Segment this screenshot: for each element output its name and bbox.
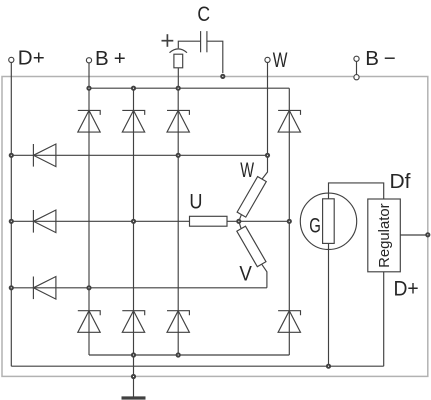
node negative bus phase3 [177, 353, 180, 356]
rotor G circle [300, 193, 356, 249]
wire negative bus [89, 354, 289, 356]
wire D+ vertical [10, 63, 12, 367]
wire capacitor to B+ bus [177, 68, 179, 88]
diode D8 star-point bottom [278, 311, 300, 333]
terminal regulator case [426, 233, 429, 236]
wire V winding top lead [239, 221, 241, 228]
diode D3 top row [167, 110, 189, 132]
wire capacitor to case [207, 41, 223, 73]
diode D11 exciter row 3 [33, 277, 56, 300]
node row1 W [266, 154, 269, 157]
diode D7 bottom row [167, 311, 189, 333]
node rotor ground [327, 365, 330, 368]
wire V winding bottom lead [262, 264, 267, 288]
diode D1 top row [78, 110, 100, 132]
stator winding V [237, 226, 266, 267]
wire rotor bottom lead [328, 243, 330, 366]
capacitor C body rectangle [174, 54, 183, 68]
node D+ row3 [10, 286, 13, 289]
wire ground lead [133, 355, 135, 397]
stator winding W [237, 177, 266, 218]
wire capacitor top plate lead [178, 41, 200, 48]
capacitor plus sign [162, 34, 174, 47]
node negative bus phase2 [132, 353, 135, 356]
svg-text:C: C [197, 3, 210, 26]
node bus phase2 [132, 87, 135, 90]
wire regulator right lead [400, 234, 428, 236]
diode D5 bottom row [78, 311, 100, 333]
wire row 3 [11, 287, 267, 289]
node row1 phase3 [177, 154, 180, 157]
terminal D+ [9, 57, 14, 62]
svg-text:W: W [273, 48, 288, 72]
svg-text:Df: Df [390, 170, 411, 193]
node row2 star column [288, 220, 291, 223]
terminal W [265, 57, 270, 62]
svg-text:D+: D+ [394, 277, 419, 301]
wire W winding bottom lead [239, 215, 242, 222]
node D+ row1 [10, 154, 13, 157]
wire B+ terminal stem [88, 63, 90, 88]
wire row 1 [11, 154, 267, 156]
diode D6 bottom row [122, 311, 144, 333]
wire B- terminal stem [356, 61, 358, 75]
node D+ row2 [10, 220, 13, 223]
node row3 phase1 [87, 286, 90, 289]
wire row 2 right [227, 220, 289, 222]
svg-text:G: G [309, 214, 321, 238]
capacitor C plates [201, 31, 207, 52]
rotor brush rectangle [323, 199, 335, 244]
ground symbol [122, 396, 146, 399]
svg-text:D+: D+ [18, 47, 45, 70]
wire regulator bottom lead (D+) [383, 272, 385, 366]
diode D2 top row [122, 110, 144, 132]
node bus phase1 [87, 87, 90, 90]
diode D9 exciter row 1 [33, 144, 56, 167]
wire B+ bus [89, 87, 289, 89]
svg-text:B: B [365, 47, 379, 70]
wire phase 1 vertical [88, 88, 90, 355]
node row2 phase2 [132, 220, 135, 223]
wire D+ bottom bus [11, 365, 383, 367]
diode D4 star-point top [278, 110, 300, 132]
node case ground [132, 375, 135, 378]
diode D10 exciter row 2 [33, 210, 56, 233]
wire phase 3 vertical [177, 88, 179, 355]
regulator box [368, 199, 401, 272]
wire W winding top lead [262, 155, 268, 179]
capacitor C electrolytic arc plate [170, 49, 188, 53]
svg-text:U: U [189, 189, 202, 213]
node star point [237, 220, 240, 223]
svg-text:Regulator: Regulator [376, 203, 393, 268]
wire row 2 left [11, 220, 189, 222]
node bus phase3 [177, 87, 180, 90]
wire phase 2 vertical [133, 88, 135, 355]
svg-text:V: V [239, 261, 252, 285]
svg-text:W: W [240, 158, 254, 182]
stator winding U [190, 216, 228, 226]
wire W terminal line [267, 63, 269, 156]
terminal B- [354, 56, 359, 61]
svg-text:−: − [384, 47, 396, 70]
wire star-point column [288, 88, 290, 355]
case / housing (grey box) [2, 77, 428, 377]
wire rotor top lead (Df) [329, 183, 384, 199]
terminal B+ [86, 58, 91, 63]
terminal capacitor case [221, 75, 224, 78]
terminal B- case [354, 75, 359, 80]
